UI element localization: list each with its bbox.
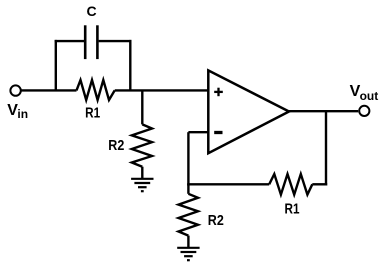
resistor R1 (feedback) (269, 174, 312, 195)
svg-text:R1: R1 (85, 105, 100, 122)
capacitor C (85, 25, 97, 59)
wire: - input riser down to feedback node B (187, 132, 189, 185)
wire: output riser (325, 111, 327, 185)
terminal Vin (10, 85, 20, 95)
svg-text:in: in (17, 107, 28, 121)
wire from R1 (feedback) to output riser (312, 183, 327, 185)
wire: capacitor loop left vertical (55, 40, 57, 92)
label R1 (input) (85, 105, 100, 122)
wire from node A down to R2 (left) (141, 90, 143, 124)
label Vout (350, 83, 379, 103)
resistor R2 (left, to ground) (132, 124, 152, 166)
svg-text:out: out (360, 89, 379, 103)
wire to op-amp - input (188, 131, 208, 133)
resistor R1 (input) (77, 80, 115, 100)
op-amp + input marker (214, 88, 223, 97)
svg-text:R2: R2 (208, 212, 224, 229)
wire: op-amp output to Vout (289, 110, 358, 112)
label Vin (7, 102, 28, 121)
ground (right) (177, 248, 199, 260)
wire: capacitor loop top left horizontal (55, 40, 84, 42)
wire from R1 to op-amp + input (node A) (115, 89, 209, 91)
svg-text:C: C (86, 3, 96, 19)
wire from R2 (right) to ground (187, 236, 189, 248)
label R2 (right) (208, 212, 224, 229)
op-amp - input marker (214, 131, 222, 134)
ground (left) (131, 179, 153, 191)
label C (86, 3, 96, 19)
resistor R2 (right, to ground) (179, 194, 199, 236)
label R1 (feedback) (285, 201, 300, 218)
wire from node B to R2 (right) (187, 184, 189, 194)
wire from R2 (left) to ground (141, 167, 143, 179)
wire: capacitor loop top right horizontal (99, 40, 132, 42)
op-amp U1 (208, 70, 289, 153)
wire: feedback from node B to R1 (feedback) (187, 183, 269, 185)
label R2 (left) (108, 137, 124, 154)
svg-text:R2: R2 (108, 137, 124, 154)
terminal Vout (359, 106, 369, 116)
wire from Vin to R1 (21, 89, 77, 91)
svg-text:R1: R1 (285, 201, 300, 218)
wire: capacitor loop right vertical (129, 40, 131, 92)
